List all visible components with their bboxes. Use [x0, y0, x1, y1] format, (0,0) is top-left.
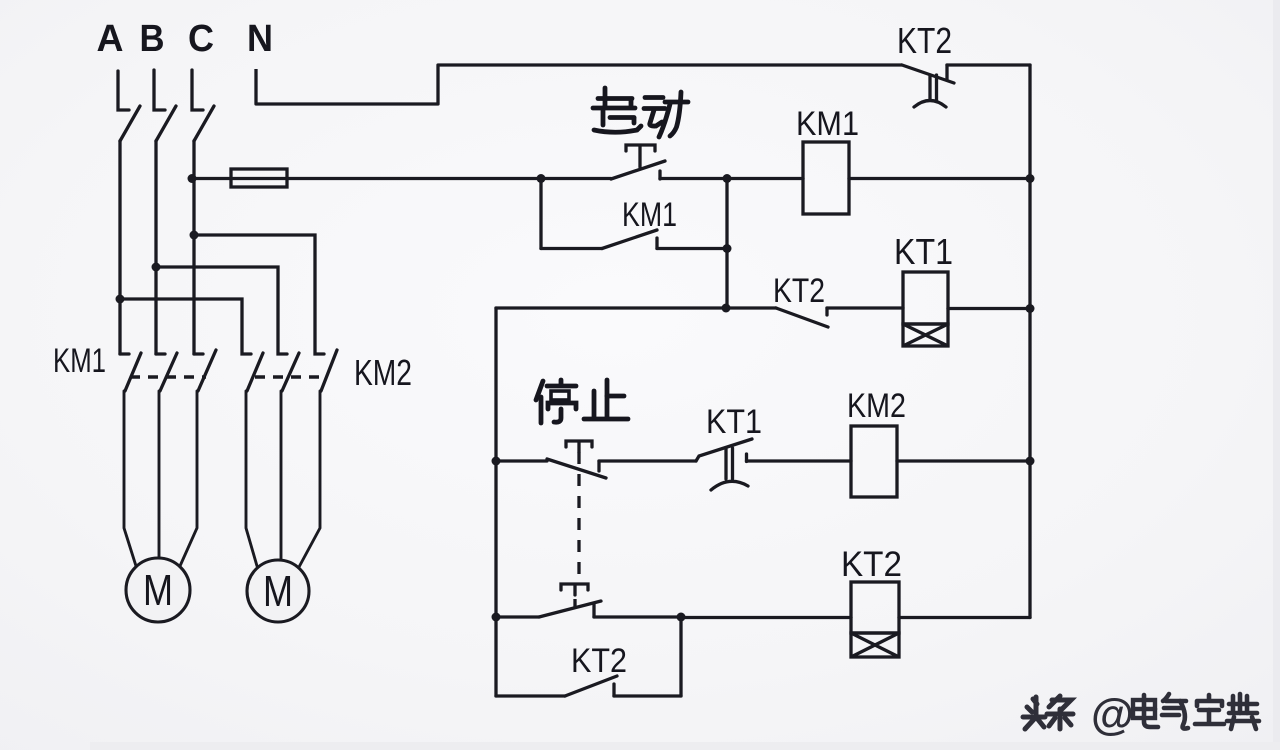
bottom scan band — [90, 742, 1280, 750]
start button SB1 blade — [611, 161, 665, 179]
wire branch down right — [725, 179, 728, 309]
svg-text:KT2: KT2 — [841, 545, 902, 584]
svg-text:KT1: KT1 — [706, 403, 762, 441]
wire KM2 coil to right rail — [897, 459, 1031, 462]
coil KM1 — [803, 142, 849, 214]
wire KM1 pole1 to motor1 — [124, 391, 136, 566]
wire KM1 pole3 to motor1 — [180, 391, 197, 566]
main contact KM2 pole2 — [282, 353, 299, 391]
coil KM2 — [851, 426, 897, 497]
stop button second contact normally-open — [496, 601, 681, 617]
svg-text:B: B — [140, 18, 165, 60]
junction C crossover — [190, 231, 199, 240]
start button SB1 actuator — [626, 145, 655, 167]
junction row2 — [722, 304, 731, 313]
wire KT1 coil to right rail — [948, 307, 1030, 310]
crossover wire C to KM2 pole3 — [194, 235, 324, 354]
label start (qi dong) — [593, 88, 688, 137]
time contact KT2 normally-closed mid — [776, 308, 903, 327]
watermark toutiao tiao — [1047, 696, 1073, 729]
stop button SB2 normally-closed — [496, 459, 696, 478]
svg-text:KT2: KT2 — [773, 272, 825, 310]
junction left rail stop row — [492, 457, 501, 466]
time contact KT2 normally-closed top — [902, 65, 954, 107]
coil KT1 with delay box — [903, 272, 948, 346]
main contact KM1 pole2 — [156, 353, 177, 391]
svg-text:KT2: KT2 — [571, 642, 627, 680]
disconnect switch QS pole C — [192, 70, 214, 141]
disconnect switch QS pole B — [154, 70, 176, 141]
watermark bao — [1195, 695, 1224, 724]
svg-text:M: M — [143, 566, 173, 615]
wire to KT2 coil — [681, 616, 851, 619]
watermark qi — [1162, 694, 1188, 729]
junction B crossover — [152, 263, 161, 272]
label stop (ting zhi) — [536, 380, 628, 423]
motor M1 — [126, 558, 190, 622]
wire KM2 pole2 to motor2 — [280, 391, 283, 559]
wire start button to node — [660, 177, 803, 180]
svg-text:KM1: KM1 — [53, 342, 106, 380]
main contact KM2 pole3 — [321, 350, 337, 391]
junction right of start — [723, 174, 732, 183]
wire phase A vertical — [118, 141, 121, 354]
wire KT2 top to right rail — [947, 63, 1030, 66]
wire KM1 pole2 to motor1 — [158, 391, 161, 558]
wire phase B vertical — [154, 141, 157, 354]
contact KM1 auxiliary — [541, 230, 727, 249]
left rail — [494, 308, 497, 696]
crossover wire A to KM2 pole1 — [120, 299, 251, 354]
stop button SB2 actuator — [566, 441, 592, 583]
crossover wire B to KM2 pole2 — [156, 267, 287, 354]
svg-text:KT1: KT1 — [894, 231, 953, 272]
wire control row from C tap through fuse to start button — [192, 177, 611, 180]
main contact KM2 pole1 — [247, 353, 263, 391]
junction left of start — [537, 174, 546, 183]
wire KT2 coil to right rail end — [899, 616, 1030, 619]
junction left rail bottom row — [492, 613, 501, 622]
fuse FU — [231, 169, 287, 187]
disconnect switch QS pole A — [118, 71, 140, 141]
main contact KM1 pole1 — [120, 353, 141, 391]
svg-text:KM1: KM1 — [622, 196, 677, 234]
junction A crossover — [116, 295, 125, 304]
junction right rail row2 — [1026, 304, 1035, 313]
wire branch down left — [539, 179, 542, 249]
wire KM1 coil to right rail — [849, 177, 1030, 180]
junction right rail row1 — [1026, 174, 1035, 183]
svg-text:@: @ — [1091, 690, 1134, 739]
coil KT2 with delay box — [851, 582, 899, 657]
watermark dian — [1133, 695, 1158, 727]
contact KT2 self-holding — [496, 618, 681, 697]
svg-text:KM2: KM2 — [847, 387, 906, 425]
right scan edge — [1273, 0, 1280, 750]
dashed link KM2 — [255, 375, 325, 378]
wire KM2 pole3 to motor2 — [299, 391, 320, 567]
watermark dian2 — [1227, 694, 1259, 729]
svg-text:A: A — [97, 18, 124, 60]
junction branch right — [723, 244, 732, 253]
junction C tap — [188, 174, 197, 183]
motor M2 — [247, 560, 309, 622]
wire phase C vertical — [192, 141, 195, 354]
dashed link KM1 — [130, 375, 206, 378]
wire row2 left — [496, 306, 776, 309]
svg-text:N: N — [247, 18, 273, 60]
wire neutral N — [256, 65, 902, 104]
junction bottom row — [677, 613, 686, 622]
svg-text:KM1: KM1 — [796, 105, 859, 143]
wire KM2 pole1 to motor2 — [246, 391, 257, 566]
stop button second actuator — [561, 584, 588, 607]
watermark toutiao tou — [1023, 697, 1045, 729]
svg-text:C: C — [188, 18, 214, 60]
svg-text:KM2: KM2 — [354, 352, 412, 393]
junction right rail row3 — [1026, 457, 1035, 466]
time contact KT1 normally-open — [696, 439, 851, 490]
svg-text:M: M — [263, 567, 293, 616]
main contact KM1 pole3 — [194, 350, 216, 391]
svg-text:KT2: KT2 — [897, 20, 952, 61]
right rail — [1028, 65, 1031, 618]
